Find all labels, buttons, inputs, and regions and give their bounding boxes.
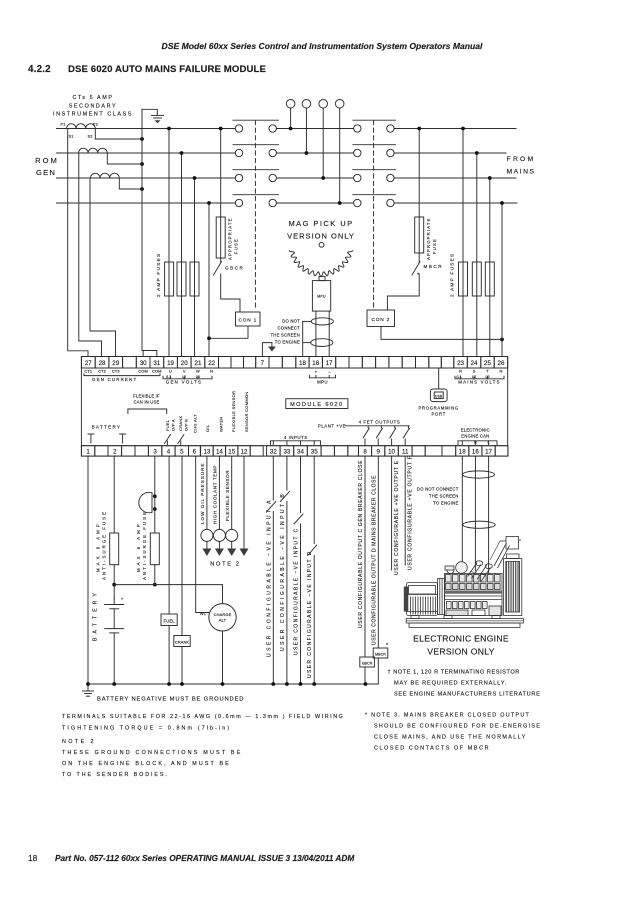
svg-text:TIGHTENING TORQUE = 0.8Nm (7lb: TIGHTENING TORQUE = 0.8Nm (7lb-in) bbox=[62, 726, 231, 732]
wire phase W from gen bbox=[57, 177, 236, 179]
fuse mains sense 2 bbox=[472, 262, 481, 296]
svg-text:15: 15 bbox=[228, 449, 235, 456]
svg-text:MBCR: MBCR bbox=[424, 264, 444, 269]
svg-text:VERSION ONLY: VERSION ONLY bbox=[427, 647, 494, 657]
wire mains T drop bbox=[489, 178, 491, 357]
ground screen terminal 7 bbox=[262, 343, 272, 357]
svg-text:GEN: GEN bbox=[36, 168, 56, 177]
svg-text:LOW OIL PRESSURE: LOW OIL PRESSURE bbox=[200, 462, 205, 524]
sensor flexible bbox=[231, 456, 233, 529]
svg-text:2: 2 bbox=[113, 449, 117, 456]
wire mains S drop bbox=[476, 153, 478, 357]
relay coil CON 2 bbox=[367, 310, 395, 327]
ground CT common bbox=[142, 109, 157, 115]
charge alternator bbox=[209, 604, 236, 631]
svg-text:17: 17 bbox=[326, 360, 333, 367]
svg-text:SENSOR COMMON: SENSOR COMMON bbox=[244, 391, 249, 432]
wire output F bbox=[404, 456, 406, 565]
svg-text:FLEXIBLE IF: FLEXIBLE IF bbox=[133, 394, 160, 399]
fuse mains sense 3 bbox=[485, 262, 494, 296]
wire N breaker middle bbox=[276, 202, 353, 204]
svg-text:CT3: CT3 bbox=[112, 368, 121, 373]
pushbutton emergency stop bbox=[139, 492, 152, 512]
relay GBCR coil bbox=[360, 657, 375, 667]
svg-text:USB: USB bbox=[435, 394, 443, 398]
svg-text:ANTI-SURGE FUSE: ANTI-SURGE FUSE bbox=[142, 510, 147, 580]
svg-text:31: 31 bbox=[153, 360, 160, 367]
svg-text:16: 16 bbox=[472, 449, 479, 456]
svg-text:DO NOT: DO NOT bbox=[282, 319, 300, 324]
svg-text:18: 18 bbox=[299, 360, 306, 367]
svg-text:V: V bbox=[183, 368, 186, 373]
svg-text:5: 5 bbox=[180, 449, 184, 456]
svg-text:APPROPRIATE: APPROPRIATE bbox=[228, 217, 233, 260]
svg-text:GEN VOLTS: GEN VOLTS bbox=[166, 380, 203, 385]
wire CT2 S2 link bbox=[107, 153, 142, 164]
svg-text:4 INPUTS: 4 INPUTS bbox=[284, 435, 308, 440]
linkage CON2 dashed bbox=[373, 121, 375, 311]
wire gen aux tap bbox=[220, 129, 222, 263]
svg-text:MAY BE REQUIRED EXTERNALLY.: MAY BE REQUIRED EXTERNALLY. bbox=[394, 681, 507, 687]
svg-text:8: 8 bbox=[363, 449, 367, 456]
svg-text:DSE Model 60xx Series Control: DSE Model 60xx Series Control and Instru… bbox=[162, 41, 484, 51]
terminal strip row 1 bbox=[81, 357, 95, 369]
svg-text:21: 21 bbox=[195, 360, 202, 367]
contact MBCR bbox=[412, 262, 420, 276]
contact crank output bbox=[180, 441, 182, 446]
wire terminal 4 fuel bbox=[168, 456, 170, 614]
wire mains N drop bbox=[501, 203, 503, 357]
svg-text:32: 32 bbox=[270, 449, 277, 456]
fuse gen sense 1 bbox=[165, 262, 174, 296]
ground battery negative bbox=[87, 684, 89, 691]
fuse gen sense 3 bbox=[190, 262, 199, 296]
wire mains aux tap bbox=[418, 129, 420, 263]
svg-text:WATER: WATER bbox=[219, 417, 224, 433]
CAN screen lower bbox=[463, 521, 495, 528]
svg-text:FUSE: FUSE bbox=[432, 238, 437, 254]
fuse appropriate mains bbox=[415, 217, 424, 253]
wire V sense drop bbox=[181, 153, 183, 357]
svg-text:ENGINE CAN: ENGINE CAN bbox=[461, 434, 489, 439]
svg-text:MODULE 6020: MODULE 6020 bbox=[290, 402, 343, 408]
svg-text:FLEXIBLE SENSOR: FLEXIBLE SENSOR bbox=[231, 391, 236, 432]
svg-text:USER CONFIGURABLE +VE OUTPUT F: USER CONFIGURABLE +VE OUTPUT F bbox=[407, 455, 413, 570]
sensor oil pressure bbox=[206, 456, 208, 529]
svg-text:33: 33 bbox=[283, 449, 290, 456]
terminal strip row 2 bbox=[81, 446, 94, 456]
battery cells bbox=[105, 604, 124, 606]
svg-text:BATTERY: BATTERY bbox=[93, 589, 99, 641]
svg-text:N: N bbox=[210, 368, 213, 373]
svg-text:20: 20 bbox=[181, 360, 188, 367]
svg-text:CRANK: CRANK bbox=[175, 640, 189, 645]
wire output C gen breaker close bbox=[364, 456, 366, 657]
svg-text:O/P B: O/P B bbox=[184, 419, 189, 431]
svg-text:28: 28 bbox=[99, 360, 106, 367]
wire CT common split to terminals 30 31 bbox=[142, 351, 157, 357]
svg-text:2 AMP FUSES: 2 AMP FUSES bbox=[450, 253, 455, 297]
fuse MAX 6 AMP bbox=[150, 533, 159, 565]
svg-text:MAX 6 AMP: MAX 6 AMP bbox=[136, 521, 141, 572]
gear teeth bbox=[289, 251, 353, 277]
svg-text:GBCR: GBCR bbox=[225, 266, 244, 271]
svg-text:ELECTRONIC: ELECTRONIC bbox=[461, 428, 490, 433]
solenoid CRANK bbox=[174, 636, 190, 647]
svg-text:W: W bbox=[196, 368, 200, 373]
svg-text:16: 16 bbox=[312, 360, 319, 367]
wire CT2 S1 to terminal 28 bbox=[79, 153, 102, 357]
svg-text:NOTE 2: NOTE 2 bbox=[210, 562, 240, 568]
contact GBCR bbox=[214, 262, 222, 276]
linkage CON1 dashed bbox=[254, 121, 256, 311]
svg-text:BATTERY NEGATIVE MUST BE GROUN: BATTERY NEGATIVE MUST BE GROUNDED bbox=[97, 697, 244, 703]
engine genset illustration bbox=[404, 537, 524, 628]
svg-text:* NOTE 3. MAINS BREAKER CLOSED: * NOTE 3. MAINS BREAKER CLOSED OUTPUT bbox=[365, 713, 530, 719]
svg-text:CT1: CT1 bbox=[84, 368, 93, 373]
sensor coolant temp bbox=[218, 456, 220, 529]
svg-text:MPU: MPU bbox=[317, 379, 328, 384]
svg-text:9: 9 bbox=[376, 449, 380, 456]
svg-text:+: + bbox=[315, 369, 318, 374]
contact fuel output bbox=[166, 441, 168, 446]
wire CAN H bbox=[461, 456, 463, 565]
svg-text:4 FET OUTPUTS: 4 FET OUTPUTS bbox=[359, 420, 401, 425]
svg-text:APPROPRIATE: APPROPRIATE bbox=[426, 217, 431, 260]
wire V breaker middle bbox=[276, 152, 353, 154]
svg-text:PORT: PORT bbox=[432, 412, 446, 417]
svg-text:CLOSE MAINS, AND USE THE NORMA: CLOSE MAINS, AND USE THE NORMALLY bbox=[374, 735, 527, 741]
wire output E bbox=[391, 456, 393, 570]
wire MBCR to CON2 bbox=[387, 274, 419, 310]
CT2 current transformer bbox=[79, 148, 108, 153]
fuse gen sense 2 bbox=[177, 262, 186, 296]
svg-text:THE SCREEN: THE SCREEN bbox=[429, 494, 459, 499]
svg-text:FUEL: FUEL bbox=[165, 419, 170, 431]
svg-text:OIL: OIL bbox=[205, 424, 210, 432]
svg-text:26: 26 bbox=[498, 360, 505, 367]
svg-text:USER CONFIGURABLE −VE INPUT D: USER CONFIGURABLE −VE INPUT D bbox=[307, 550, 313, 678]
wire V from mains bbox=[394, 152, 506, 154]
wire output D mains breaker close bbox=[377, 456, 379, 648]
wire battery negative rail bbox=[88, 683, 378, 685]
relay MBCR coil bbox=[373, 648, 388, 658]
USB programming port bbox=[438, 368, 440, 389]
CT1 current transformer bbox=[67, 124, 96, 129]
svg-text:30: 30 bbox=[140, 360, 147, 367]
svg-text:18: 18 bbox=[459, 449, 466, 456]
svg-text:FUEL: FUEL bbox=[164, 618, 176, 623]
svg-text:COM: COM bbox=[138, 368, 148, 373]
svg-text:10: 10 bbox=[388, 449, 395, 456]
svg-text:WL: WL bbox=[200, 611, 207, 616]
svg-text:HIGH COOLANT TEMP: HIGH COOLANT TEMP bbox=[213, 465, 218, 524]
solenoid FUEL bbox=[161, 614, 177, 626]
svg-text:34: 34 bbox=[297, 449, 304, 456]
svg-text:USER CONFIGURABLE −VE INPUT A: USER CONFIGURABLE −VE INPUT A bbox=[266, 498, 272, 657]
svg-text:DSE 6020 AUTO MAINS FAILURE MO: DSE 6020 AUTO MAINS FAILURE MODULE bbox=[68, 64, 266, 75]
wire phase U from gen bbox=[57, 128, 236, 130]
svg-text:18: 18 bbox=[28, 853, 38, 863]
svg-text:4.2.2: 4.2.2 bbox=[28, 64, 51, 75]
svg-text:MAX 8 AMP: MAX 8 AMP bbox=[96, 521, 101, 572]
svg-text:CONNECT: CONNECT bbox=[278, 326, 301, 331]
svg-text:CT2: CT2 bbox=[98, 368, 107, 373]
svg-text:GBCR: GBCR bbox=[362, 661, 373, 665]
wire U from mains bbox=[394, 128, 516, 130]
relay coil CON 1 bbox=[236, 312, 261, 326]
wire N sense drop bbox=[208, 203, 210, 357]
svg-text:USER CONFIGURABLE −VE INPUT B: USER CONFIGURABLE −VE INPUT B bbox=[280, 492, 286, 651]
wire CAN screen bbox=[488, 456, 490, 575]
svg-text:14: 14 bbox=[216, 449, 223, 456]
svg-text:U: U bbox=[169, 368, 172, 373]
svg-text:22: 22 bbox=[208, 360, 215, 367]
svg-text:MAINS VOLTS: MAINS VOLTS bbox=[458, 380, 500, 385]
svg-text:FUSE: FUSE bbox=[234, 238, 239, 254]
wire W breaker middle bbox=[276, 177, 353, 179]
svg-text:INSTRUMENT CLASS: INSTRUMENT CLASS bbox=[53, 112, 133, 118]
svg-text:PLANT +VE: PLANT +VE bbox=[318, 424, 346, 429]
svg-text:11: 11 bbox=[402, 449, 409, 456]
svg-text:N: N bbox=[499, 368, 502, 373]
sensor common ground bbox=[243, 456, 245, 548]
svg-text:1: 1 bbox=[86, 449, 90, 456]
svg-text:+: + bbox=[121, 597, 124, 602]
svg-text:P2: P2 bbox=[93, 123, 98, 127]
svg-text:GEN CURRENT: GEN CURRENT bbox=[92, 377, 137, 382]
svg-text:CRANK: CRANK bbox=[178, 415, 183, 431]
svg-text:ELECTRONIC ENGINE: ELECTRONIC ENGINE bbox=[413, 634, 509, 644]
wire CT1 S1 to terminal 27 bbox=[68, 129, 88, 357]
svg-text:4: 4 bbox=[167, 449, 171, 456]
svg-text:CAN IN USE: CAN IN USE bbox=[134, 400, 160, 405]
svg-text:Part No. 057-112 60xx Series O: Part No. 057-112 60xx Series OPERATING M… bbox=[55, 853, 355, 863]
wire CT3 S2 link bbox=[119, 178, 142, 189]
wire screen to terminal 18 bbox=[303, 320, 312, 322]
svg-text:USER CONFIGURABLE +VE OUTPUT E: USER CONFIGURABLE +VE OUTPUT E bbox=[394, 460, 400, 575]
fuse MAX 8 AMP bbox=[110, 533, 119, 565]
fuse appropriate gen bbox=[216, 217, 225, 258]
svg-text:ROM: ROM bbox=[35, 156, 59, 165]
wire configurable input A bbox=[272, 456, 274, 500]
wire CON2 to mains neutral bbox=[381, 327, 502, 340]
svg-text:USER CONFIGURABLE OUTPUT D MAI: USER CONFIGURABLE OUTPUT D MAINS BREAKER… bbox=[372, 475, 378, 645]
wire W from mains bbox=[394, 177, 516, 179]
svg-text:TO ENGINE: TO ENGINE bbox=[275, 340, 300, 345]
load terminals bbox=[286, 100, 295, 109]
wire CAN L bbox=[474, 456, 476, 571]
wire W sense drop bbox=[194, 178, 196, 357]
wire terminal 2 battery positive bbox=[113, 456, 115, 533]
fuse mains sense 1 bbox=[459, 262, 468, 296]
svg-text:USER CONFIGURABLE OUTPUT C GEN: USER CONFIGURABLE OUTPUT C GEN BREAKER C… bbox=[358, 460, 364, 628]
wire CON1 to neutral bbox=[209, 326, 248, 338]
wire CT1 S2 link bbox=[95, 129, 142, 140]
wire mains R drop bbox=[462, 129, 464, 357]
svg-text:CON 1: CON 1 bbox=[238, 318, 257, 324]
svg-text:35: 35 bbox=[311, 449, 318, 456]
svg-text:S: S bbox=[473, 368, 476, 373]
svg-text:19: 19 bbox=[167, 360, 174, 367]
wire phase V from gen bbox=[57, 152, 236, 154]
wire GBCR to CON1 bbox=[221, 274, 240, 312]
svg-text:DO NOT CONNECT: DO NOT CONNECT bbox=[417, 487, 459, 492]
svg-text:25: 25 bbox=[484, 360, 491, 367]
svg-text:NOTE 2: NOTE 2 bbox=[62, 739, 96, 745]
wire plant supply bus bbox=[114, 585, 222, 604]
svg-text:ON THE ENGINE BLOCK, AND MUST: ON THE ENGINE BLOCK, AND MUST BE bbox=[62, 761, 231, 767]
contactor CON1 gen breaker bbox=[235, 125, 242, 132]
svg-text:ALT: ALT bbox=[219, 618, 227, 623]
svg-text:7: 7 bbox=[261, 360, 265, 367]
svg-text:TERMINALS SUITABLE FOR 22-16 A: TERMINALS SUITABLE FOR 22-16 AWG (0.6mm … bbox=[62, 714, 344, 720]
svg-text:VERSION ONLY: VERSION ONLY bbox=[287, 232, 355, 241]
svg-text:BATTERY: BATTERY bbox=[92, 425, 122, 430]
svg-text:23: 23 bbox=[457, 360, 464, 367]
svg-text:29: 29 bbox=[112, 360, 119, 367]
svg-text:† NOTE 1, 120 R TERMINATING RE: † NOTE 1, 120 R TERMINATING RESISTOR bbox=[388, 670, 520, 676]
svg-text:T: T bbox=[486, 368, 489, 373]
svg-text:6: 6 bbox=[193, 449, 197, 456]
wire MPU + bbox=[315, 311, 317, 356]
wire configurable input C bbox=[300, 456, 302, 512]
svg-text:R: R bbox=[459, 368, 462, 373]
svg-text:PROGRAMMING: PROGRAMMING bbox=[419, 406, 459, 411]
svg-text:MPU: MPU bbox=[317, 295, 326, 299]
svg-text:S2: S2 bbox=[87, 135, 92, 139]
svg-text:3: 3 bbox=[153, 449, 157, 456]
svg-text:FLEXIBLE SENSOR: FLEXIBLE SENSOR bbox=[225, 470, 230, 521]
svg-text:MAG PICK UP: MAG PICK UP bbox=[288, 219, 353, 228]
svg-text:THESE GROUND CONNECTIONS MUST: THESE GROUND CONNECTIONS MUST BE bbox=[62, 750, 243, 756]
svg-text:SHOULD BE CONFIGURED FOR DE-EN: SHOULD BE CONFIGURED FOR DE-ENERGISE bbox=[374, 724, 541, 730]
CAN screen upper bbox=[463, 471, 495, 478]
svg-text:USER CONFIGURABLE −VE INPUT C: USER CONFIGURABLE −VE INPUT C bbox=[294, 527, 300, 655]
svg-text:S1: S1 bbox=[68, 135, 73, 139]
svg-text:TO THE SENDER BODIES.: TO THE SENDER BODIES. bbox=[62, 772, 169, 778]
svg-text:CLOSED CONTACTS OF MBCR: CLOSED CONTACTS OF MBCR bbox=[374, 746, 490, 752]
wire N from mains bbox=[394, 202, 517, 204]
svg-text:CON 2: CON 2 bbox=[371, 317, 390, 323]
contactor CON2 mains breaker bbox=[354, 125, 361, 132]
svg-text:24: 24 bbox=[471, 360, 478, 367]
svg-text:FROM: FROM bbox=[507, 156, 536, 163]
module side walls bbox=[80, 368, 82, 446]
svg-text:MBCR: MBCR bbox=[375, 652, 386, 656]
wire U breaker middle bbox=[276, 128, 353, 130]
wire configurable input B bbox=[286, 456, 288, 490]
svg-text:MAINS: MAINS bbox=[506, 169, 535, 176]
svg-text:TO ENGINE: TO ENGINE bbox=[433, 501, 458, 506]
MPU cable screen lower bbox=[311, 339, 333, 347]
svg-text:27: 27 bbox=[85, 360, 92, 367]
wire configurable input D bbox=[313, 456, 315, 543]
wire U sense drop bbox=[168, 129, 170, 357]
svg-text:CHG ALT: CHG ALT bbox=[193, 414, 198, 433]
svg-text:12: 12 bbox=[241, 449, 248, 456]
svg-text:CHARGE: CHARGE bbox=[214, 612, 232, 617]
svg-text:−: − bbox=[328, 369, 331, 374]
svg-text:ANTI-SURGE FUSE: ANTI-SURGE FUSE bbox=[102, 510, 107, 580]
svg-text:P1: P1 bbox=[60, 123, 65, 127]
svg-text:*: * bbox=[386, 643, 389, 649]
wire charge alt to rail bbox=[222, 631, 224, 684]
MPU cable screen upper bbox=[311, 318, 333, 325]
wire MPU - bbox=[328, 311, 330, 356]
svg-text:2 AMP FUSES: 2 AMP FUSES bbox=[156, 253, 161, 297]
wire CT common vertical bbox=[141, 109, 143, 350]
wire plant +ve bus bbox=[345, 425, 409, 427]
CT3 current transformer bbox=[91, 173, 120, 178]
svg-text:CTs 5 AMP: CTs 5 AMP bbox=[72, 95, 113, 101]
svg-text:COM: COM bbox=[152, 368, 162, 373]
module outline MODULE 6020 bbox=[286, 399, 348, 409]
wire terminal 5 crank bbox=[181, 456, 183, 635]
svg-text:13: 13 bbox=[203, 449, 210, 456]
svg-text:17: 17 bbox=[485, 449, 492, 456]
contact FET outputs bbox=[367, 426, 369, 428]
wire terminal 1 to rail bbox=[87, 456, 89, 684]
MPU sensor bbox=[319, 277, 325, 281]
wire neutral from gen bbox=[57, 202, 236, 204]
svg-text:O/P A: O/P A bbox=[171, 419, 176, 431]
wire CT3 S1 to terminal 29 bbox=[90, 178, 116, 357]
wire terminal 3 emergency stop bbox=[154, 456, 156, 494]
svg-text:SEE ENGINE MANUFACTURERS LITER: SEE ENGINE MANUFACTURERS LITERATURE bbox=[394, 692, 541, 698]
wire terminal 6 charge alt bbox=[196, 456, 209, 612]
svg-text:THE SCREEN: THE SCREEN bbox=[271, 333, 301, 338]
svg-text:SECONDARY: SECONDARY bbox=[69, 104, 117, 110]
